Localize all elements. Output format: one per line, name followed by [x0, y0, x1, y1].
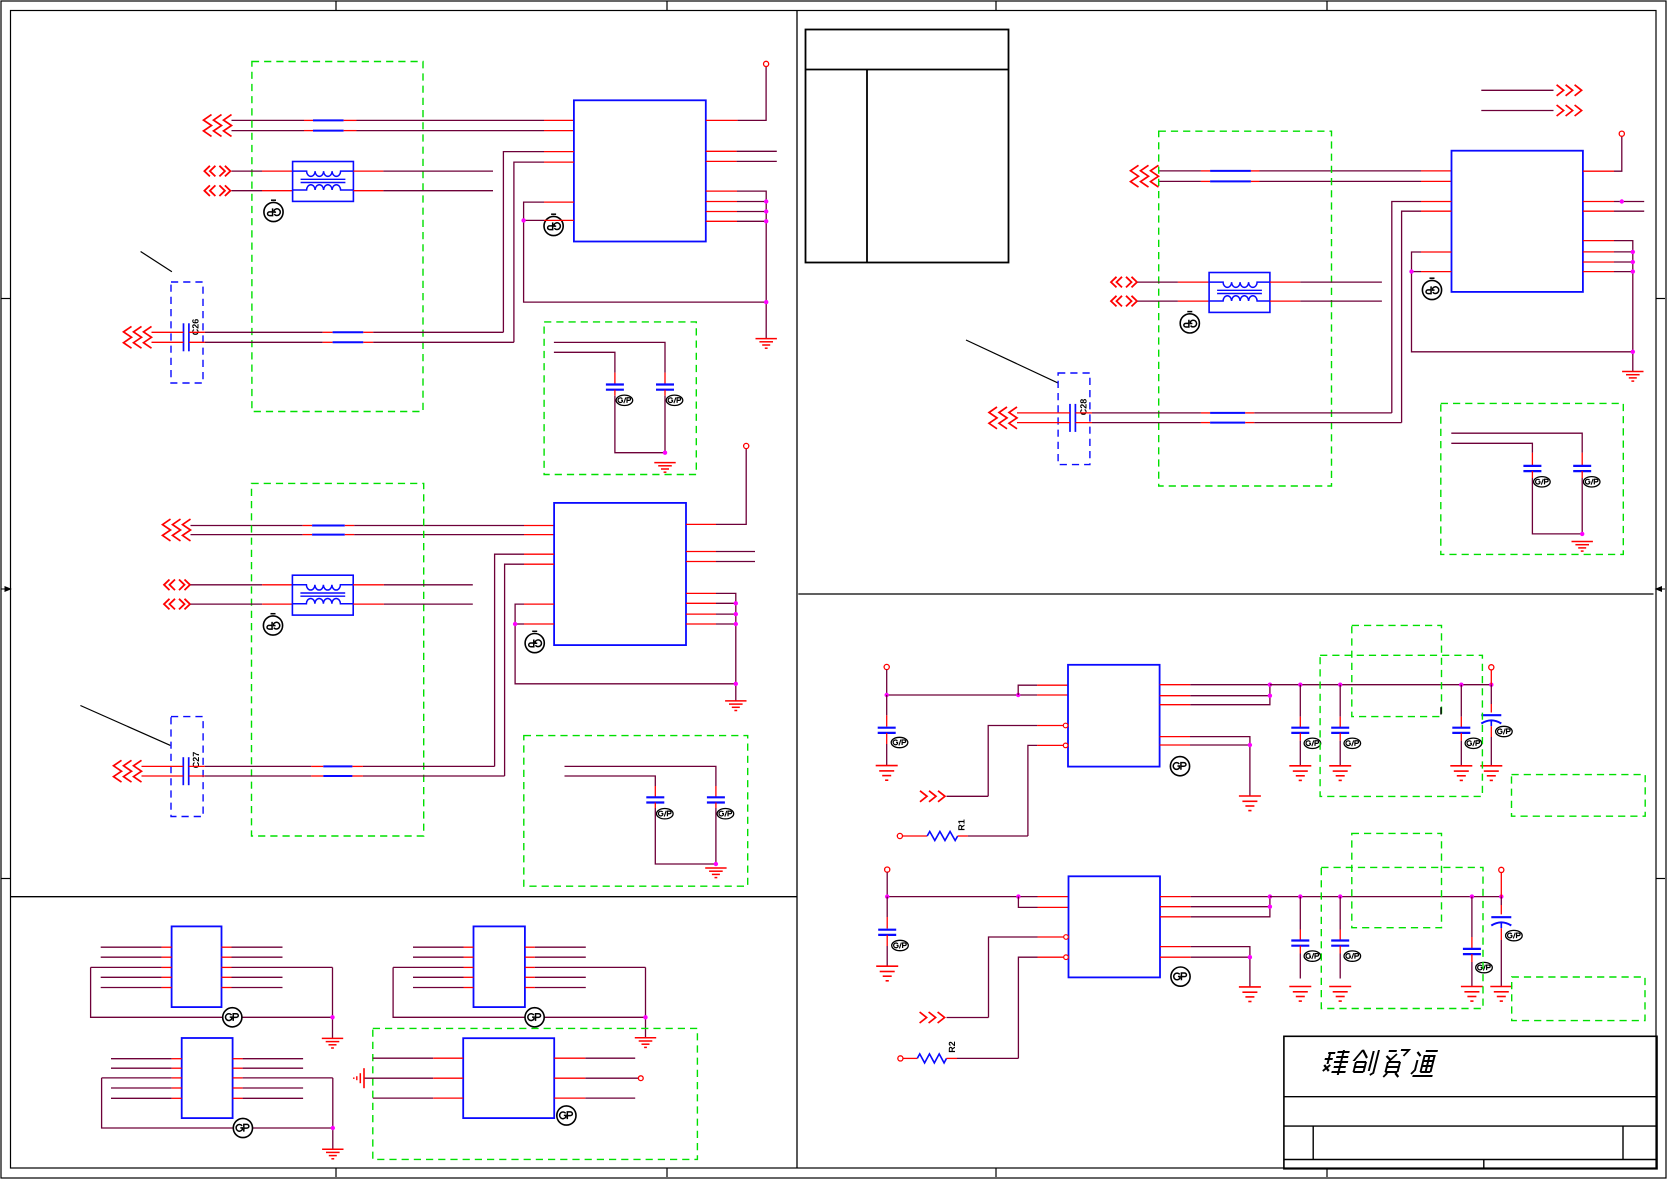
- marker GP6 (circuit3 U3): [1422, 278, 1441, 299]
- IC U5 (regulator 1): [1068, 665, 1160, 767]
- company logo text Wistron (CJK): [1320, 1050, 1439, 1077]
- junction (1018.4,896.6): [1016, 894, 1020, 898]
- junction dots circuit2 gnd rail: [734, 601, 738, 686]
- wires U10 right: [554, 1058, 638, 1098]
- ground GND20 (U8): [635, 1038, 656, 1048]
- junction (1411.5,271.6): [1409, 269, 1413, 273]
- wire reg2 input rail: [887, 872, 1068, 896]
- marker GP10 (U8 loop): [525, 1008, 544, 1027]
- wire U1 pin to GND junction: [524, 219, 574, 221]
- annotation line (circuit3 cap): [966, 340, 1058, 383]
- wire C6 to gnd: [655, 803, 716, 865]
- wire cap net B (circuit1): [554, 352, 615, 384]
- off-page connector CN1 (pair, circuit1): [204, 115, 232, 137]
- wire R1 to U5: [968, 745, 1063, 836]
- junction (1269.9,906.7): [1268, 905, 1272, 909]
- junction (1269.9,684.7): [1268, 683, 1272, 687]
- wire cap net B (circuit3): [1451, 443, 1532, 466]
- wire CN8b to T3: [1138, 300, 1210, 302]
- annotation line (circuit1 cap): [141, 252, 172, 272]
- wire C15 to gnd: [886, 935, 888, 966]
- marker GP9 (U7 loop): [223, 1008, 242, 1027]
- ground GND4 (circuit2 caps): [705, 868, 726, 878]
- IC U10 (bottom-left D): [463, 1038, 554, 1118]
- capacitor C10 (reg1 input): [878, 695, 896, 733]
- junction (887.2,896.6): [885, 894, 889, 898]
- wire U2 pin RX- to C4 net: [505, 564, 554, 776]
- junction (515.1,624): [513, 622, 517, 626]
- junction (715.9,864): [714, 862, 718, 866]
- designator R1: [957, 819, 967, 831]
- svg-text:R2: R2: [947, 1041, 957, 1053]
- resistor R2 (reg2): [903, 1054, 957, 1063]
- capacitor C14 polarized (reg1): [1481, 685, 1501, 766]
- dashed component box C7 (circuit3): [1058, 373, 1090, 465]
- terminal J9 (reg2 output): [1499, 867, 1504, 872]
- wire cap net A (circuit3): [1451, 433, 1582, 466]
- resistor R1 (reg1): [903, 832, 968, 841]
- designator G/P C12: [1344, 738, 1361, 748]
- wire U5 GND pins: [1160, 737, 1250, 796]
- wire T3 out b: [1270, 300, 1382, 302]
- designator C1: [191, 319, 201, 336]
- wire C3 to gnd: [615, 390, 665, 453]
- wire J9 to rail: [1500, 873, 1502, 897]
- junction (1269.9,695.7): [1268, 694, 1272, 698]
- wire C10 to gnd: [886, 733, 888, 766]
- dashed function box (circuit2 caps): [524, 736, 748, 887]
- ground GND19 (U7): [322, 1038, 343, 1048]
- wire U1 pin RX- to C1 net: [514, 162, 574, 342]
- wire TX pair to U2 (circuit2 top wires): [191, 526, 555, 535]
- designator G/P C6: [657, 809, 674, 819]
- bidirectional connector CN2a (circuit1): [204, 166, 230, 177]
- designator G/P C18: [1476, 962, 1493, 972]
- inverted pin bubble U6 EN: [1064, 935, 1069, 940]
- IC U3 (circuit3 PHY): [1452, 151, 1583, 292]
- marker GP7 (reg1): [1170, 757, 1189, 776]
- off-page connector CN6 (pair, circuit2 RX): [114, 760, 142, 782]
- ground GND13 (reg2 C15): [876, 966, 898, 981]
- wire U1 GND pins right: [706, 191, 766, 339]
- off-page connector CN9 (pair, circuit3 RX): [989, 407, 1017, 429]
- ground GND1 (circuit1): [756, 339, 777, 349]
- dashed function box reg1 B: [1352, 625, 1442, 716]
- terminal J5 (reg1 adj): [897, 833, 902, 838]
- wires U9: [102, 1059, 333, 1150]
- wire CN2b to T1: [232, 190, 293, 192]
- wire U3 GND loop left: [1412, 252, 1633, 352]
- junction (523.6,220.4): [521, 218, 525, 222]
- wire U3 pin RX- to C7 net: [1402, 211, 1452, 422]
- wire U1 pin RX+ to C1 net: [503, 152, 574, 333]
- junction (645.5,1017.3): [643, 1015, 647, 1019]
- designator G/P C19: [1506, 930, 1523, 940]
- wire U2 pin RX+ to C4 net: [495, 554, 554, 766]
- wire CN2a to T1: [232, 170, 293, 172]
- transformer T2: [292, 575, 353, 615]
- wire T1 out a: [353, 170, 493, 172]
- ground GND11: [1480, 766, 1502, 781]
- capacitor C19 polarized (reg2): [1491, 897, 1511, 987]
- junction (1249.9,745): [1248, 743, 1252, 747]
- wire enable to U6: [947, 937, 1064, 1018]
- marker GP12 (U10): [557, 1106, 576, 1125]
- wire reg2 VIN branch: [1018, 897, 1068, 908]
- junction (1269.9,896.6): [1268, 894, 1272, 898]
- designator G/P C17: [1344, 951, 1361, 961]
- wires U7: [91, 947, 333, 1038]
- junction (1582.2,533.9): [1580, 532, 1584, 536]
- section divider horizontal right: [798, 593, 1653, 595]
- terminal J10 (U10 out): [638, 1076, 643, 1081]
- wire U3 GND pins right: [1583, 241, 1633, 372]
- bidirectional connector CN8a (circuit3): [1111, 277, 1137, 288]
- wire CN5b to T2: [191, 603, 293, 605]
- dashed function box D (bottom-left): [373, 1028, 698, 1159]
- wire CN5a to T2: [191, 584, 293, 586]
- wire U2 pin to GND junction: [515, 623, 554, 625]
- IC U8 (bottom-left B): [474, 926, 525, 1007]
- bidirectional connector CN5b (circuit2): [164, 599, 190, 610]
- terminal J8 (reg2 adj): [898, 1056, 903, 1061]
- wire U2 out2 right: [686, 561, 755, 563]
- terminal J2 (circuit2): [744, 443, 749, 448]
- terminal J6 (reg1 output): [1489, 665, 1494, 670]
- capacitor C12 (reg1): [1331, 685, 1349, 766]
- ground GND5 (circuit3): [1622, 372, 1643, 382]
- wire enable to U5: [947, 726, 1064, 797]
- dashed component box C4 (circuit2): [171, 717, 203, 817]
- marker GP5 (circuit3 magnetics): [1180, 312, 1199, 333]
- wire cap net B (circuit2): [565, 776, 656, 797]
- ground GND16: [1461, 987, 1483, 1002]
- wire reg2 output rail: [1270, 896, 1501, 898]
- ground GND2 (circuit1 caps): [654, 463, 675, 473]
- transformer T3: [1209, 273, 1270, 313]
- terminal J3 (circuit3): [1619, 131, 1624, 136]
- wires U10 left: [364, 1058, 463, 1098]
- junction (332.5,1017.3): [330, 1015, 334, 1019]
- svg-text:R1: R1: [957, 819, 967, 831]
- section divider horizontal left: [11, 896, 798, 898]
- capacitor C16 (reg2): [1291, 897, 1309, 979]
- wire U3 pin to GND junction: [1412, 271, 1452, 273]
- wire C9 to gnd: [1532, 471, 1582, 534]
- inverted pin bubble U5 EN: [1063, 723, 1068, 728]
- designator R2: [947, 1041, 957, 1053]
- ground GND7 (reg1 C10): [876, 766, 898, 781]
- marker GP2 (circuit1 U1): [544, 214, 563, 235]
- wire U2 out1 right: [686, 551, 755, 553]
- off-page connector CN11 (reg2 enable): [920, 1012, 945, 1023]
- dashed function box reg2 A: [1321, 867, 1483, 1008]
- designator G/P C11: [1304, 738, 1321, 748]
- dashed function box (circuit2 magnetics): [252, 483, 424, 836]
- capacitor C11 (reg1): [1291, 685, 1309, 766]
- revision table: [806, 30, 1009, 263]
- chassis ground (U10 input): [354, 1068, 364, 1088]
- wire reg1 VIN branch: [1018, 685, 1068, 695]
- designator G/P C3: [616, 395, 633, 405]
- marker GP8 (reg2): [1171, 967, 1190, 986]
- off-page connector CN7 (pair, circuit3): [1131, 165, 1159, 187]
- dashed function box reg2 B: [1352, 833, 1442, 927]
- designator G/P C5: [717, 809, 734, 819]
- dashed function box reg2 C (empty): [1512, 977, 1645, 1021]
- dashed function box reg1 A: [1320, 655, 1482, 796]
- inverted pin bubble U5 FB: [1063, 743, 1068, 748]
- wire U1 VCC to terminal: [706, 67, 766, 121]
- wire CN8a to T3: [1138, 281, 1210, 283]
- capacitor C8 (circuit3): [1573, 466, 1591, 471]
- capacitor C17 (reg2): [1331, 897, 1349, 979]
- IC U2 (circuit2 PHY): [554, 503, 686, 645]
- wire cap net A (circuit2): [565, 766, 716, 797]
- IC U6 (regulator 2): [1069, 876, 1161, 977]
- section divider vertical: [796, 11, 798, 1169]
- wire TX pair to U3 (circuit3 top wires): [1159, 171, 1452, 182]
- designator G/P C14: [1496, 726, 1513, 736]
- marker GP1 (circuit1 magnetics): [264, 200, 283, 221]
- junction (1621.8,201.5): [1620, 199, 1624, 203]
- bidirectional connector CN5a (circuit2): [164, 580, 190, 591]
- marker GP11 (U9 loop): [233, 1118, 252, 1137]
- wire U2 GND loop left: [515, 604, 736, 684]
- capacitor C6 (circuit2): [646, 797, 664, 802]
- capacitor C4 plates: [183, 757, 188, 785]
- wire C5 to gnd: [715, 803, 717, 865]
- wire U3 out1 right: [1583, 201, 1644, 203]
- terminal J4 (reg1 input left): [884, 664, 889, 669]
- bidirectional connector CN8b (circuit3): [1111, 296, 1137, 307]
- IC U1 (circuit1 PHY): [574, 100, 706, 241]
- wire reg1 input rail: [887, 670, 1068, 695]
- off-page connector CN4 (pair, circuit2): [163, 519, 191, 541]
- wire U3 out2 right: [1583, 210, 1644, 212]
- capacitor C13 (reg1): [1452, 685, 1470, 766]
- junction dots reg1 rail: [1298, 683, 1493, 687]
- junction (665,452.7): [663, 451, 667, 455]
- wire R2 to U6: [957, 957, 1064, 1058]
- wire T2 out a: [353, 584, 473, 586]
- wire T3 out a: [1270, 281, 1382, 283]
- wire RX pair (circuit3 lower wires): [1017, 413, 1402, 423]
- junction dots reg2 rail: [1298, 894, 1503, 898]
- off-page connector CN3 (pair, circuit1 RX): [124, 326, 152, 348]
- wire U1 out2 right: [706, 160, 777, 162]
- dashed component box C1 (circuit1): [171, 282, 203, 383]
- capacitor C5 (circuit2): [707, 797, 725, 802]
- dashed function box (circuit3 caps): [1441, 403, 1624, 554]
- dashed function box (circuit1 magnetics): [252, 62, 423, 412]
- dashed function box (circuit3 magnetics): [1159, 131, 1332, 486]
- wire U2 VCC to terminal: [686, 449, 746, 525]
- ground GND10: [1450, 766, 1472, 781]
- wire U6 GND pins: [1160, 947, 1250, 987]
- wire T1 out b: [353, 190, 493, 192]
- wire reg1 output rail: [1270, 684, 1491, 686]
- capacitor C3 (circuit1): [606, 385, 624, 390]
- ground GND15: [1329, 987, 1351, 1002]
- terminal J1 (circuit1): [764, 61, 769, 66]
- annotation line (circuit2 cap): [80, 706, 170, 746]
- capacitor C15 (reg2 input): [878, 897, 896, 935]
- junction dots circuit3 gnd rail: [1631, 250, 1635, 354]
- capacitor C9 (circuit3): [1523, 466, 1541, 471]
- IC U9 (bottom-left C): [182, 1038, 233, 1118]
- ground GND12 (reg1 IC): [1239, 796, 1261, 811]
- ground GND9: [1329, 766, 1351, 781]
- capacitor C1 plates: [184, 323, 189, 351]
- designator G/P C10: [891, 737, 908, 747]
- designator G/P C2: [666, 395, 683, 405]
- designator G/P C13: [1465, 738, 1482, 748]
- designator C4: [191, 752, 201, 769]
- junction (1018.2,695): [1016, 693, 1020, 697]
- wire J6 to rail: [1490, 670, 1492, 685]
- dashed function box reg1 C (empty): [1512, 775, 1646, 817]
- marker GP4 (circuit2 U2): [525, 631, 544, 652]
- wire cap net A (circuit1): [554, 342, 665, 384]
- wire U5 outputs to rail: [1160, 685, 1270, 705]
- capacitor C2 (circuit1): [656, 385, 674, 390]
- stray mark (reg1): [1440, 707, 1442, 714]
- junction (1249.9,957.2): [1248, 955, 1252, 959]
- IC U7 (bottom-left A): [172, 926, 222, 1007]
- ground GND6 (circuit3 caps): [1572, 542, 1593, 552]
- inverted pin bubble U6 FB: [1064, 955, 1069, 960]
- bidirectional connector CN2b (circuit1): [204, 185, 230, 196]
- wire U1 GND loop left: [524, 202, 767, 302]
- ground GND21 (U9): [322, 1149, 343, 1159]
- wires U8: [393, 947, 645, 1038]
- junction (886.7,695): [885, 693, 889, 697]
- ground GND8: [1289, 766, 1311, 781]
- ground GND18 (reg2 IC): [1239, 987, 1261, 1002]
- designator G/P C16: [1304, 951, 1321, 961]
- capacitor C18 (reg2): [1463, 897, 1481, 987]
- wire U3 VCC to terminal: [1583, 136, 1622, 171]
- wire U6 outputs to rail: [1160, 897, 1270, 917]
- wire U1 out1 right: [706, 150, 777, 152]
- border center arrow left: [2, 587, 11, 591]
- designator C7: [1079, 399, 1089, 416]
- terminal J7 (reg2 input left): [885, 867, 890, 872]
- designator G/P C8: [1583, 477, 1600, 487]
- wire U2 GND pins right: [686, 593, 736, 701]
- border center arrow right: [1656, 587, 1665, 591]
- ground GND17: [1490, 987, 1512, 1002]
- off-page connector CN10 (reg1 enable): [920, 791, 945, 802]
- wire U3 pin RX+ to C7 net: [1392, 202, 1452, 413]
- ground GND3 (circuit2): [725, 701, 746, 711]
- title block: [1284, 1036, 1657, 1169]
- ground GND14: [1289, 987, 1311, 1002]
- wire RX pair (circuit2 lower wires): [142, 766, 505, 776]
- wire TX pair to U1 (circuit1 top wires): [232, 120, 574, 130]
- wire RX pair (circuit1 lower wires): [152, 332, 514, 342]
- designator G/P C9: [1534, 477, 1551, 487]
- dashed function box (circuit1 caps): [544, 322, 696, 475]
- junction (332.8,1128): [331, 1126, 335, 1130]
- off-page output arrows (circuit3 top): [1481, 85, 1581, 116]
- marker GP3 (circuit2 magnetics): [263, 614, 282, 635]
- capacitor C7 plates: [1070, 404, 1075, 432]
- junction dots circuit1 gnd rail: [764, 199, 768, 304]
- designator G/P C15: [892, 940, 909, 950]
- transformer T1: [293, 162, 354, 202]
- wire T2 out b: [353, 603, 473, 605]
- wire C2 to gnd: [664, 390, 666, 453]
- wire C8 to gnd: [1581, 471, 1583, 534]
